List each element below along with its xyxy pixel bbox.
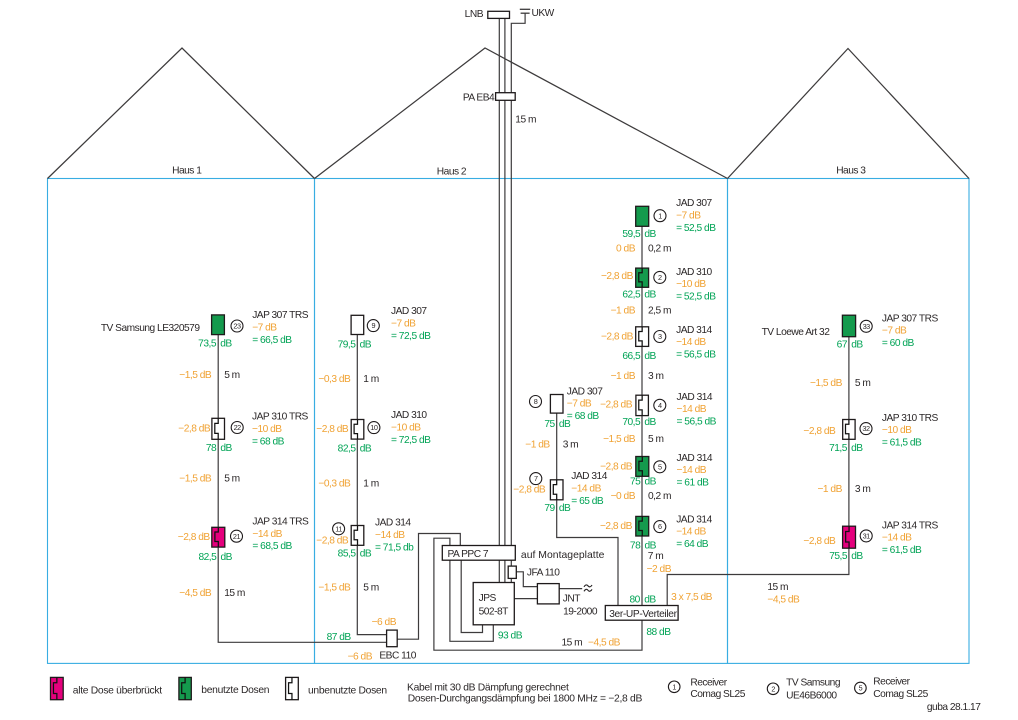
label -2,8 dB through loss outlet 6 bbox=[600, 521, 633, 532]
outlet 23 JAP 307 TRS bbox=[212, 315, 225, 335]
svg-text:dB: dB bbox=[644, 417, 656, 428]
svg-text:33: 33 bbox=[863, 322, 871, 331]
svg-text:15 m: 15 m bbox=[224, 588, 245, 599]
svg-text:75: 75 bbox=[544, 419, 555, 430]
distributor 3er-UP-Verteiler bbox=[605, 606, 678, 621]
svg-text:Receiver: Receiver bbox=[690, 678, 727, 689]
label level 66,5 dB below outlet 3 bbox=[622, 351, 656, 362]
house Haus 3 outline (blue) bbox=[728, 179, 970, 664]
svg-text:11: 11 bbox=[335, 524, 342, 533]
svg-text:−2,8 dB: −2,8 dB bbox=[178, 532, 211, 543]
wire 3er-UP-Verteiler to Haus 3 riser (15 m) bbox=[667, 325, 849, 606]
svg-text:JAD 310: JAD 310 bbox=[391, 410, 427, 421]
label -6 dB EBC output to Haus 2 bbox=[372, 617, 397, 628]
svg-text:2: 2 bbox=[658, 273, 662, 282]
svg-text:= 56,5 dB: = 56,5 dB bbox=[677, 417, 717, 428]
signature guba 28.1.17 bbox=[927, 702, 981, 713]
svg-text:dB: dB bbox=[220, 338, 232, 349]
outlet 31 JAP 314 TRS bbox=[843, 526, 856, 548]
svg-text:62,5: 62,5 bbox=[622, 290, 641, 301]
outlet 4 JAD 314 bbox=[636, 395, 649, 415]
legend TV circle 2 bbox=[767, 678, 841, 702]
svg-text:−7 dB: −7 dB bbox=[882, 326, 907, 337]
svg-text:19-2000: 19-2000 bbox=[563, 607, 598, 618]
label cable segment Haus 1 outlet 21 to EBC 110 bbox=[179, 588, 245, 599]
label circle 23 bbox=[231, 320, 243, 332]
svg-text:UKW: UKW bbox=[532, 8, 555, 19]
svg-text:= 68,5 dB: = 68,5 dB bbox=[252, 541, 292, 552]
house Haus 1 outline (blue) bbox=[48, 179, 315, 664]
svg-text:3: 3 bbox=[658, 332, 662, 341]
wire SAT downlead left (LNB to JPS) bbox=[498, 18, 500, 582]
svg-text:6: 6 bbox=[658, 522, 662, 531]
label cable segment Haus 2 outlet 10-11 bbox=[318, 478, 378, 489]
svg-text:−0,3 dB: −0,3 dB bbox=[318, 374, 351, 385]
svg-text:23: 23 bbox=[233, 322, 241, 331]
label level 75,5 dB below outlet 31 bbox=[829, 551, 863, 562]
mains symbol bbox=[584, 585, 592, 591]
svg-text:5 m: 5 m bbox=[224, 370, 239, 381]
label cable segment column outlet 1-2 bbox=[616, 243, 671, 254]
label level 59,5 dB below outlet 1 bbox=[622, 229, 656, 240]
svg-text:71,5: 71,5 bbox=[829, 443, 848, 454]
svg-text:3 x 7,5 dB: 3 x 7,5 dB bbox=[671, 592, 713, 603]
power supply JNT 19-2000 bbox=[537, 584, 597, 618]
svg-text:−14 dB: −14 dB bbox=[677, 465, 707, 476]
svg-text:JAD 314: JAD 314 bbox=[676, 325, 712, 336]
outlet 22 JAP 310 TRS bbox=[212, 418, 225, 439]
label circle 31 bbox=[860, 530, 872, 542]
svg-text:= 61,5 dB: = 61,5 dB bbox=[882, 438, 922, 449]
svg-text:JAD 307: JAD 307 bbox=[391, 306, 427, 317]
svg-text:dB: dB bbox=[851, 340, 863, 351]
svg-text:3er-UP-Verteiler: 3er-UP-Verteiler bbox=[609, 609, 677, 620]
label -2,8 dB through loss outlet 32 bbox=[803, 426, 836, 437]
outlet 2 JAD 310 bbox=[636, 268, 649, 287]
svg-text:−2,8 dB: −2,8 dB bbox=[316, 536, 349, 547]
svg-text:0 dB: 0 dB bbox=[616, 243, 636, 254]
svg-text:TV Samsung LE320579: TV Samsung LE320579 bbox=[101, 323, 201, 334]
svg-text:UE46B6000: UE46B6000 bbox=[786, 690, 837, 701]
legend label benutzte Dosen bbox=[201, 685, 270, 696]
wire EBC 110 to Haus 2 riser bbox=[357, 325, 386, 635]
svg-text:−14 dB: −14 dB bbox=[375, 530, 405, 541]
wire JPS output loop 1 to PA PPC 7 (93 dB) bbox=[450, 560, 493, 641]
wire JPS output loop 2 to PA PPC 7 bbox=[461, 560, 482, 632]
svg-text:= 65 dB: = 65 dB bbox=[571, 496, 604, 507]
label circle 3 bbox=[654, 331, 666, 343]
svg-text:−2,8 dB: −2,8 dB bbox=[513, 485, 546, 496]
label level 82,5 dB below outlet 21 bbox=[198, 552, 232, 563]
svg-text:JAD 310: JAD 310 bbox=[676, 267, 712, 278]
label auf Montageplatte bbox=[521, 550, 605, 561]
svg-text:= 64 dB: = 64 dB bbox=[676, 539, 709, 550]
svg-text:= 72,5 dB: = 72,5 dB bbox=[391, 435, 431, 446]
svg-text:−4,5 dB: −4,5 dB bbox=[179, 588, 212, 599]
svg-text:67: 67 bbox=[837, 340, 848, 351]
outlet 1 JAD 307 bbox=[636, 206, 649, 226]
svg-text:−14 dB: −14 dB bbox=[676, 527, 706, 538]
label circle 11 bbox=[333, 523, 345, 535]
label -2,8 dB through loss outlet 31 bbox=[803, 536, 836, 547]
svg-text:−7 dB: −7 dB bbox=[567, 399, 592, 410]
label cable segment column outlet 5-6 bbox=[611, 491, 671, 502]
svg-text:JAP 310 TRS: JAP 310 TRS bbox=[252, 412, 309, 423]
svg-text:dB: dB bbox=[360, 444, 372, 455]
svg-text:unbenutzte Dosen: unbenutzte Dosen bbox=[308, 686, 387, 697]
legend benutzte Dosen symbol (green) bbox=[179, 677, 191, 699]
label 80 dB level at column riser base bbox=[629, 594, 656, 605]
svg-text:10: 10 bbox=[370, 423, 378, 432]
svg-text:−1 dB: −1 dB bbox=[525, 440, 550, 451]
label circle 21 bbox=[231, 530, 243, 542]
svg-text:−1,5 dB: −1,5 dB bbox=[318, 583, 351, 594]
label level 73,5 dB below outlet 23 bbox=[198, 338, 232, 349]
label outlet 22 type and levels bbox=[252, 412, 309, 448]
amplifier PA EB4 bbox=[463, 92, 515, 103]
label TV set at outlet 33 bbox=[762, 327, 831, 338]
label Haus 3 bbox=[836, 166, 866, 177]
svg-text:JAD 314: JAD 314 bbox=[676, 514, 712, 525]
label outlet 11 type and levels bbox=[375, 518, 414, 554]
filter JFA 110 bbox=[508, 566, 560, 579]
svg-text:5 m: 5 m bbox=[855, 378, 870, 389]
svg-text:2: 2 bbox=[771, 684, 775, 693]
svg-text:73,5: 73,5 bbox=[198, 338, 217, 349]
svg-text:JAP 314 TRS: JAP 314 TRS bbox=[882, 520, 939, 531]
svg-text:15 m: 15 m bbox=[515, 115, 536, 126]
svg-text:−1,5 dB: −1,5 dB bbox=[603, 434, 636, 445]
svg-text:dB: dB bbox=[851, 551, 863, 562]
svg-text:82,5: 82,5 bbox=[338, 444, 357, 455]
outlet 11 JAD 314 bbox=[351, 526, 364, 546]
wire UKW downlead (antenna to JFA 110) bbox=[511, 13, 525, 566]
label circle 6 bbox=[654, 521, 666, 533]
label outlet 9 type and levels bbox=[391, 306, 431, 342]
label cable segment column outlet 8-7 bbox=[525, 440, 578, 451]
wire JPS 502-8T to JNT 19-2000 bbox=[514, 598, 537, 600]
label outlet 10 type and levels bbox=[391, 410, 431, 446]
svg-text:−2 dB: −2 dB bbox=[647, 564, 672, 575]
svg-text:70,5: 70,5 bbox=[622, 417, 641, 428]
house Haus 2 outline (blue) bbox=[315, 179, 728, 664]
label level 79 dB below outlet 7 bbox=[544, 503, 571, 514]
svg-text:7 m: 7 m bbox=[648, 551, 663, 562]
svg-text:−6 dB: −6 dB bbox=[348, 652, 373, 663]
svg-text:4: 4 bbox=[658, 401, 662, 410]
label outlet 33 type and levels bbox=[882, 313, 939, 349]
svg-text:Receiver: Receiver bbox=[873, 677, 910, 688]
svg-text:−14 dB: −14 dB bbox=[252, 529, 282, 540]
label level 78 dB below outlet 6 bbox=[630, 541, 657, 552]
svg-text:−2,8 dB: −2,8 dB bbox=[803, 536, 836, 547]
svg-text:−2,8 dB: −2,8 dB bbox=[600, 462, 633, 473]
svg-text:dB: dB bbox=[220, 443, 232, 454]
label level 82,5 dB below outlet 10 bbox=[338, 444, 372, 455]
outlet 3 JAD 314 bbox=[636, 327, 649, 347]
svg-text:−7 dB: −7 dB bbox=[252, 322, 277, 333]
label cable segment Haus 1 outlet 22-21 bbox=[179, 474, 239, 485]
label cable segment column outlet 3-4 bbox=[611, 371, 664, 382]
svg-text:−1 dB: −1 dB bbox=[817, 484, 842, 495]
svg-text:88 dB: 88 dB bbox=[646, 627, 671, 638]
label -2,8 dB through loss outlet 4 bbox=[600, 400, 633, 411]
svg-text:−7 dB: −7 dB bbox=[676, 210, 701, 221]
label -2,8 dB through loss outlet 7 bbox=[513, 485, 546, 496]
svg-text:auf Montageplatte: auf Montageplatte bbox=[521, 550, 605, 561]
label level 70,5 dB below outlet 4 bbox=[622, 417, 656, 428]
svg-text:−10 dB: −10 dB bbox=[882, 425, 912, 436]
svg-text:Comag SL25: Comag SL25 bbox=[690, 689, 745, 700]
svg-text:80: 80 bbox=[629, 594, 640, 605]
svg-text:PA EB4: PA EB4 bbox=[463, 92, 495, 103]
svg-text:TV Samsung: TV Samsung bbox=[786, 678, 841, 689]
svg-text:31: 31 bbox=[863, 532, 871, 541]
outlet 33 JAP 307 TRS bbox=[842, 315, 855, 337]
legend receiver circle 1 bbox=[668, 678, 745, 701]
wire JFA 110 to JNT 19-2000 bbox=[516, 572, 537, 587]
svg-text:−2,8 dB: −2,8 dB bbox=[601, 332, 634, 343]
label outlet 31 type and levels bbox=[882, 520, 939, 556]
svg-text:−10 dB: −10 dB bbox=[676, 279, 706, 290]
svg-text:21: 21 bbox=[233, 532, 241, 541]
svg-text:dB: dB bbox=[360, 340, 372, 351]
outlet 10 JAD 310 bbox=[351, 420, 364, 440]
svg-text:5 m: 5 m bbox=[648, 434, 663, 445]
svg-text:Comag SL25: Comag SL25 bbox=[873, 689, 928, 700]
svg-text:5 m: 5 m bbox=[363, 583, 378, 594]
label UKW bbox=[532, 8, 555, 19]
label outlet 2 type and levels bbox=[676, 267, 716, 303]
svg-text:guba 28.1.17: guba 28.1.17 bbox=[927, 702, 981, 713]
label circle 9 bbox=[367, 320, 379, 332]
antenna UKW dipole bars bbox=[520, 9, 530, 13]
label TV set at outlet 23 bbox=[101, 323, 201, 334]
wire SAT downlead right (LNB to JPS) bbox=[504, 18, 506, 582]
svg-text:−2,8 dB: −2,8 dB bbox=[316, 424, 349, 435]
svg-text:Haus 3: Haus 3 bbox=[836, 166, 866, 177]
svg-text:JFA 110: JFA 110 bbox=[527, 568, 560, 579]
svg-text:1: 1 bbox=[658, 211, 662, 220]
svg-text:15 m: 15 m bbox=[562, 637, 583, 648]
multiswitch JPS 502-8T bbox=[473, 583, 514, 625]
svg-text:−1,5 dB: −1,5 dB bbox=[179, 370, 212, 381]
label -2,8 dB through loss outlet 22 bbox=[178, 423, 211, 434]
svg-text:JPS: JPS bbox=[479, 593, 497, 604]
label 3 x 7,5 dB distributor loss bbox=[671, 592, 713, 603]
svg-text:−1,5 dB: −1,5 dB bbox=[179, 474, 212, 485]
svg-text:Haus 2: Haus 2 bbox=[437, 167, 467, 178]
label circle 7 bbox=[530, 473, 542, 485]
label -2,8 dB through loss outlet 11 bbox=[316, 536, 349, 547]
svg-text:dB: dB bbox=[559, 419, 571, 430]
wire JFA 110 to JPS terrestrial input bbox=[510, 578, 512, 582]
label 87 dB level to Haus 2 riser bbox=[327, 632, 352, 643]
svg-text:85,5: 85,5 bbox=[338, 549, 357, 560]
svg-text:7: 7 bbox=[534, 474, 538, 483]
label cable segment Haus 1 outlet 23-22 bbox=[179, 370, 239, 381]
label outlet 8 type and levels bbox=[567, 386, 603, 422]
wire JNT 19-2000 to mains bbox=[559, 588, 582, 590]
label -2,8 dB through loss outlet 2 bbox=[601, 271, 634, 282]
svg-text:1 m: 1 m bbox=[363, 478, 378, 489]
svg-text:= 68 dB: = 68 dB bbox=[567, 411, 600, 422]
label 93 dB JPS output level bbox=[498, 631, 523, 642]
svg-text:= 72,5 dB: = 72,5 dB bbox=[391, 331, 431, 342]
svg-text:JAD 307: JAD 307 bbox=[567, 386, 603, 397]
svg-text:5: 5 bbox=[658, 462, 662, 471]
label circle 10 bbox=[368, 422, 380, 434]
svg-text:−2,8 dB: −2,8 dB bbox=[178, 423, 211, 434]
svg-text:2,5 m: 2,5 m bbox=[648, 305, 671, 316]
label circle 22 bbox=[231, 422, 243, 434]
svg-text:JAP 307 TRS: JAP 307 TRS bbox=[252, 310, 309, 321]
svg-text:79,5: 79,5 bbox=[338, 340, 357, 351]
svg-text:59,5: 59,5 bbox=[622, 229, 641, 240]
svg-text:JAP 314 TRS: JAP 314 TRS bbox=[252, 516, 309, 527]
svg-text:0,2 m: 0,2 m bbox=[648, 491, 671, 502]
svg-text:66,5: 66,5 bbox=[622, 351, 641, 362]
label level 71,5 dB below outlet 32 bbox=[829, 443, 863, 454]
svg-text:dB: dB bbox=[559, 503, 571, 514]
label cable segment Haus 2 outlet 9-10 bbox=[318, 374, 378, 385]
label 7 m cable outlet 6 to 3er-UP bbox=[648, 551, 663, 562]
svg-text:= 68 dB: = 68 dB bbox=[252, 436, 285, 447]
label -2,8 dB through loss outlet 5 bbox=[600, 462, 633, 473]
svg-text:5 m: 5 m bbox=[224, 474, 239, 485]
svg-text:−4,5 dB: −4,5 dB bbox=[588, 637, 621, 648]
svg-text:= 60 dB: = 60 dB bbox=[882, 338, 915, 349]
svg-text:= 52,5 dB: = 52,5 dB bbox=[676, 292, 716, 303]
svg-text:LNB: LNB bbox=[465, 9, 484, 20]
svg-text:−2,8 dB: −2,8 dB bbox=[600, 521, 633, 532]
wire PA PPC 7 to 3er-UP-Verteiler (15 m) bbox=[434, 538, 642, 650]
label circle 32 bbox=[860, 423, 872, 435]
label cable segment Haus 2 outlet 11 to EBC 110 bbox=[318, 583, 378, 594]
svg-text:EBC 110: EBC 110 bbox=[379, 651, 416, 662]
svg-text:1: 1 bbox=[672, 682, 676, 691]
label circle 5 bbox=[654, 461, 666, 473]
svg-text:= 52,5 dB: = 52,5 dB bbox=[676, 223, 716, 234]
svg-text:79: 79 bbox=[544, 503, 555, 514]
svg-text:0,2 m: 0,2 m bbox=[648, 243, 671, 254]
svg-text:78: 78 bbox=[206, 443, 217, 454]
label -2 dB cable loss outlet 6 to 3er-UP bbox=[647, 564, 672, 575]
label 15 m -4,5 dB cable to Haus 3 bbox=[767, 582, 800, 606]
label circle 33 bbox=[860, 320, 872, 332]
svg-text:dB: dB bbox=[644, 229, 656, 240]
label circle 4 bbox=[654, 399, 666, 411]
svg-text:32: 32 bbox=[862, 424, 870, 433]
wire 3er-UP-Verteiler to outlet column 7/8 bbox=[557, 404, 618, 606]
svg-text:TV Loewe Art 32: TV Loewe Art 32 bbox=[762, 327, 831, 338]
legend label alte Dose ueberbrueckt bbox=[73, 686, 162, 697]
svg-text:−0,3 dB: −0,3 dB bbox=[318, 478, 351, 489]
splitter EBC 110 bbox=[379, 630, 416, 662]
svg-text:3 m: 3 m bbox=[855, 484, 870, 495]
svg-text:= 61 dB: = 61 dB bbox=[677, 478, 710, 489]
svg-text:JAD 314: JAD 314 bbox=[677, 453, 713, 464]
wire PA PPC 7 to EBC 110 bbox=[397, 534, 460, 640]
svg-text:PA PPC 7: PA PPC 7 bbox=[448, 549, 489, 560]
label level 78 dB below outlet 22 bbox=[206, 443, 233, 454]
label circle 2 bbox=[654, 271, 666, 283]
svg-text:dB: dB bbox=[645, 477, 657, 488]
label Haus 2 bbox=[437, 167, 467, 178]
svg-text:93 dB: 93 dB bbox=[498, 631, 523, 642]
outlet 7 JAD 314 bbox=[550, 480, 563, 500]
label -6 dB EBC output to Haus 1 bbox=[348, 652, 373, 663]
svg-text:−4,5 dB: −4,5 dB bbox=[767, 595, 800, 606]
label -2,8 dB through loss outlet 3 bbox=[601, 332, 634, 343]
outlet 21 JAP 314 TRS bbox=[212, 527, 225, 547]
wire 3er-UP-Verteiler to outlet column 1-6 riser bbox=[641, 216, 643, 606]
outlet 6 JAD 314 bbox=[636, 516, 649, 536]
svg-text:Dosen-Durchgangsdämpfung bei 1: Dosen-Durchgangsdämpfung bei 1800 MHz = … bbox=[408, 693, 643, 704]
svg-text:−14 dB: −14 dB bbox=[571, 484, 601, 495]
svg-text:−0 dB: −0 dB bbox=[611, 491, 636, 502]
legend label unbenutzte Dosen bbox=[308, 686, 387, 697]
label outlet 5 type and levels bbox=[677, 453, 713, 489]
svg-text:JAD 307: JAD 307 bbox=[676, 198, 712, 209]
label outlet 23 type and levels bbox=[252, 310, 309, 346]
label -2,8 dB through loss outlet 10 bbox=[316, 424, 349, 435]
svg-text:dB: dB bbox=[644, 594, 656, 605]
outlet 32 JAP 310 TRS bbox=[843, 420, 855, 440]
svg-text:−14 dB: −14 dB bbox=[882, 533, 912, 544]
svg-text:= 71,5 db: = 71,5 db bbox=[375, 542, 414, 553]
svg-text:3 m: 3 m bbox=[563, 440, 578, 451]
outlet 8 JAD 307 bbox=[550, 395, 563, 414]
label outlet 7 type and levels bbox=[571, 471, 607, 507]
label outlet 32 type and levels bbox=[882, 413, 939, 449]
svg-text:−2,8 dB: −2,8 dB bbox=[600, 400, 633, 411]
label level 79,5 dB below outlet 9 bbox=[338, 340, 372, 351]
svg-text:dB: dB bbox=[360, 549, 372, 560]
svg-text:−1 dB: −1 dB bbox=[611, 305, 636, 316]
legend note cable attenuation bbox=[407, 683, 642, 705]
label circle 8 bbox=[530, 396, 542, 408]
svg-text:−6 dB: −6 dB bbox=[372, 617, 397, 628]
outlet 9 JAD 307 bbox=[351, 315, 364, 334]
svg-text:dB: dB bbox=[644, 351, 656, 362]
svg-text:75: 75 bbox=[630, 477, 641, 488]
svg-text:= 66,5 dB: = 66,5 dB bbox=[252, 335, 292, 346]
svg-text:5: 5 bbox=[859, 684, 863, 693]
svg-text:Kabel mit 30 dB Dämpfung gerec: Kabel mit 30 dB Dämpfung gerechnet bbox=[407, 683, 569, 694]
svg-text:alte Dose überbrückt: alte Dose überbrückt bbox=[73, 686, 162, 697]
svg-text:−2,8 dB: −2,8 dB bbox=[803, 426, 836, 437]
label cable segment column outlet 4-5 bbox=[603, 434, 663, 445]
label Haus 1 bbox=[172, 166, 202, 177]
legend receiver circle 5 bbox=[855, 677, 929, 701]
svg-text:JNT: JNT bbox=[563, 594, 580, 605]
label outlet 6 type and levels bbox=[676, 514, 712, 550]
label 15 m -4,5 dB cable PA PPC 7 to 3er-UP-Verteiler bbox=[562, 637, 621, 648]
svg-text:JAD 314: JAD 314 bbox=[571, 471, 607, 482]
label cable segment column outlet 2-3 bbox=[611, 305, 671, 316]
legend unbenutzte Dosen symbol (white) bbox=[286, 677, 299, 699]
label 15 m mast cable bbox=[515, 115, 536, 126]
svg-text:dB: dB bbox=[644, 290, 656, 301]
svg-text:82,5: 82,5 bbox=[198, 552, 217, 563]
svg-text:−1 dB: −1 dB bbox=[611, 371, 636, 382]
label outlet 1 type and levels bbox=[676, 198, 716, 234]
svg-text:15 m: 15 m bbox=[767, 582, 788, 593]
label -2,8 dB through loss outlet 21 bbox=[178, 532, 211, 543]
label level 62,5 dB below outlet 2 bbox=[622, 290, 656, 301]
svg-text:= 61,5 dB: = 61,5 dB bbox=[882, 545, 922, 556]
